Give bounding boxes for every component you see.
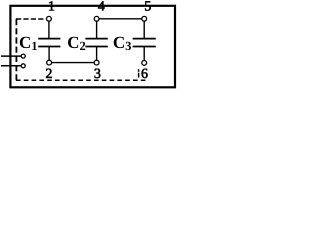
pin number 2 [46, 69, 52, 78]
pin 1 circle [47, 16, 52, 21]
wire pin5 down to C3 top plate [143, 19, 145, 39]
pin 3 circle [94, 60, 99, 65]
wire pin2 to pin3 [49, 62, 97, 64]
left pin A wire [1, 55, 21, 57]
wire C1 bottom plate down to pin2 [48, 47, 50, 63]
capacitor C1 plates [38, 39, 60, 47]
dashed package outline top edge [16, 18, 46, 20]
wire C3 bottom plate down to pin6 [143, 47, 145, 63]
left pin B wire [1, 65, 21, 67]
pin 6 circle [142, 61, 147, 66]
pin 2 circle [47, 60, 52, 65]
left pin B circle [21, 64, 25, 68]
left pin A circle [21, 54, 25, 58]
dashed package outline left edge [15, 19, 17, 80]
label C1 [20, 37, 37, 50]
pin number 3 [95, 69, 101, 78]
wire pin1 down to C1 top plate [48, 19, 50, 39]
pin 4 circle [94, 16, 99, 21]
label C3 [114, 37, 131, 50]
pin number 6 [142, 69, 148, 78]
label C2 [68, 37, 85, 50]
dashed package outline bottom edge [16, 79, 147, 81]
wire C2 bottom plate down to pin3 [96, 47, 98, 63]
capacitor C3 plates [133, 39, 156, 47]
pin number 5 [145, 1, 151, 10]
wire pin4 down to C2 top plate [96, 19, 98, 39]
pin number 4 [98, 1, 105, 10]
capacitor C2 plates [85, 39, 107, 47]
pin 5 circle [142, 16, 147, 21]
border frame [10, 6, 175, 88]
wire pin4 to pin5 [97, 18, 145, 20]
dashed package outline right edge (partial, near pin 6) [138, 69, 140, 77]
pin number 1 [49, 1, 54, 10]
